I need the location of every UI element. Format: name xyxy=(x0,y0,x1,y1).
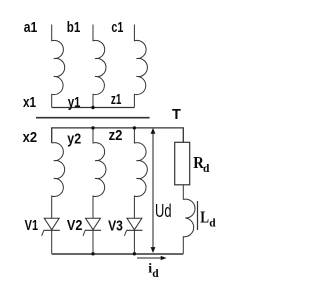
svg-text:V2: V2 xyxy=(67,218,83,234)
winding z2 (secondary phase c) xyxy=(134,128,147,218)
node: z2 on top rail (dot) xyxy=(133,126,136,129)
transformer core line T xyxy=(36,117,150,119)
inductor Ld xyxy=(183,199,195,254)
svg-text:y1: y1 xyxy=(68,95,81,111)
svg-text:d: d xyxy=(152,268,159,280)
winding a1-x1 (primary phase a) xyxy=(52,25,65,108)
node: primary star point (dot) xyxy=(91,106,94,109)
current arrow id xyxy=(137,256,167,260)
svg-text:b1: b1 xyxy=(67,20,81,36)
resistor Rd xyxy=(175,142,190,185)
wire: primary star connector x1-y1-z1 xyxy=(52,107,135,109)
svg-text:L: L xyxy=(200,207,209,226)
node: y2 on top rail (dot) xyxy=(91,126,94,129)
svg-text:d: d xyxy=(209,217,216,229)
svg-text:y2: y2 xyxy=(67,131,81,147)
winding c1-z1 (primary phase c) xyxy=(134,25,147,108)
svg-text:Ud: Ud xyxy=(155,201,172,221)
svg-text:x2: x2 xyxy=(23,130,37,146)
inductor Ld core line xyxy=(197,201,199,230)
label id xyxy=(148,261,159,280)
node: V3 cathode on bottom rail (dot) xyxy=(133,252,136,255)
svg-text:c1: c1 xyxy=(111,20,123,36)
winding b1-y1 (primary phase b) xyxy=(93,25,106,108)
svg-text:V3: V3 xyxy=(108,218,123,234)
thyristor V1 xyxy=(42,218,60,254)
svg-text:z2: z2 xyxy=(109,128,123,144)
node: V2 cathode on bottom rail (dot) xyxy=(91,252,94,255)
wire: Rd to Ld xyxy=(182,185,184,200)
winding y2 (secondary phase b) xyxy=(93,128,106,218)
label Rd xyxy=(193,153,210,175)
wire: secondary top rail xyxy=(52,128,184,143)
thyristor V3 xyxy=(124,218,142,254)
label Ld xyxy=(200,207,216,229)
svg-text:T: T xyxy=(172,107,181,123)
thyristor V2 xyxy=(83,218,101,254)
voltage arrow Ud xyxy=(151,128,156,253)
svg-text:a1: a1 xyxy=(24,20,38,36)
svg-text:z1: z1 xyxy=(111,92,122,108)
wire: bottom rail xyxy=(52,253,184,255)
svg-text:x1: x1 xyxy=(23,95,36,111)
svg-text:d: d xyxy=(203,163,210,175)
svg-text:V1: V1 xyxy=(25,218,38,234)
winding x2 (secondary phase a) xyxy=(52,143,65,219)
